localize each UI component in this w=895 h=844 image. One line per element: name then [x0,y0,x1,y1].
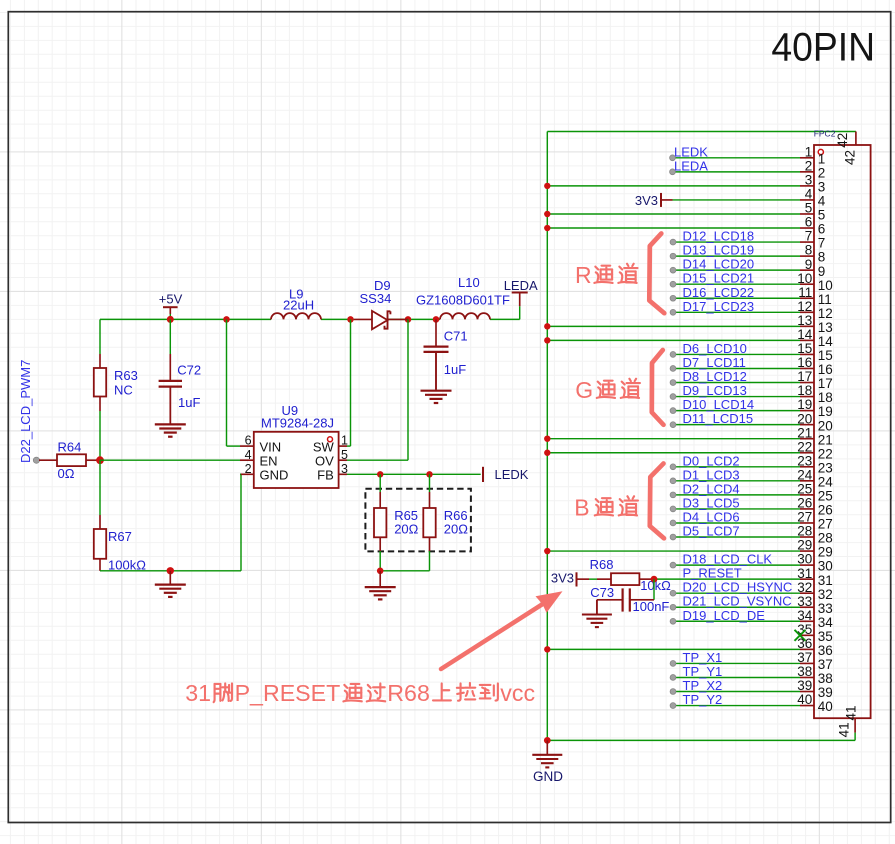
wire bottom rail to pin41 [547,739,855,741]
svg-text:0Ω: 0Ω [58,466,75,481]
svg-text:8: 8 [805,243,813,258]
wire bottom-left ground rail [100,474,241,571]
svg-text:30: 30 [818,559,833,574]
svg-text:40: 40 [818,699,833,714]
svg-text:36: 36 [818,643,833,658]
pin 30 [670,552,833,574]
svg-text:D11_LCD15: D11_LCD15 [683,411,754,426]
pin 19 [670,397,833,419]
port LEDK [483,467,529,482]
svg-text:9: 9 [805,257,813,272]
resistor R65 20ohm [374,474,419,571]
dashed option box [365,489,471,552]
U9 pin 2 GND wire [240,462,254,476]
pin 6 [544,215,825,237]
power flag +5V [159,292,183,320]
junction at +5V node [167,316,174,323]
ground below R65/R66 [365,571,396,600]
pin 36 [544,636,833,658]
svg-text:22uH: 22uH [283,297,314,312]
svg-text:C71: C71 [444,328,468,343]
svg-text:4: 4 [805,187,813,202]
svg-text:D16_LCD22: D16_LCD22 [683,285,755,300]
svg-text:D22_LCD_PWM7: D22_LCD_PWM7 [18,360,33,463]
svg-text:D3_LCD5: D3_LCD5 [683,495,740,510]
pin 4 [635,187,826,209]
svg-text:R67: R67 [108,529,132,544]
pin 14 [544,327,833,349]
svg-text:13: 13 [818,320,833,335]
pin 3 [544,172,825,194]
svg-text:P_RESET: P_RESET [683,566,742,581]
svg-text:OV: OV [315,454,334,469]
junction R64/R63/R67/EN node [96,456,104,464]
svg-text:15: 15 [818,348,833,363]
svg-text:NC: NC [114,382,133,397]
pin 25 [670,481,833,503]
svg-text:D1_LCD3: D1_LCD3 [683,467,740,482]
pin 38 [670,664,833,686]
pin 10 [670,271,833,293]
resistor R63 NC [94,354,138,411]
pin 37 [670,650,833,672]
svg-text:+5V: +5V [159,292,183,307]
svg-text:D13_LCD19: D13_LCD19 [683,243,755,258]
pin 9 [670,257,825,279]
svg-text:20Ω: 20Ω [444,522,468,537]
svg-text:1uF: 1uF [178,395,200,410]
svg-text:GZ1608D601TF: GZ1608D601TF [416,293,510,308]
pin 12 [670,299,833,321]
svg-text:LEDK: LEDK [674,144,708,159]
svg-text:7: 7 [805,229,813,244]
svg-text:31: 31 [818,573,833,588]
svg-text:D12_LCD18: D12_LCD18 [683,229,755,244]
svg-text:6: 6 [818,222,826,237]
svg-text:SS34: SS34 [360,291,392,306]
svg-text:16: 16 [818,362,833,377]
svg-text:5: 5 [818,208,826,223]
svg-text:R63: R63 [114,368,138,383]
svg-text:TP_X2: TP_X2 [683,678,723,693]
svg-text:VIN: VIN [260,439,282,454]
svg-text:D2_LCD4: D2_LCD4 [683,481,740,496]
svg-text:2: 2 [805,158,813,173]
svg-text:D5_LCD7: D5_LCD7 [683,524,740,539]
inductor L10 GZ1608D601TF [416,275,510,319]
svg-text:12: 12 [818,306,833,321]
svg-text:4: 4 [818,194,826,209]
svg-text:41: 41 [844,705,859,720]
ground flag GND [532,740,563,784]
junction R68/P_RESET/C73 [651,576,658,583]
junction R65 ground [377,568,384,575]
svg-text:9: 9 [818,264,826,279]
U9 pin 1 SW wire [339,319,351,447]
pin 26 [670,495,833,517]
pin 42 stub [855,132,857,146]
svg-text:D14_LCD20: D14_LCD20 [683,257,755,272]
pin 32 [670,580,833,602]
svg-text:D8_LCD12: D8_LCD12 [683,369,747,384]
svg-text:1: 1 [805,144,813,159]
pin 1 [670,144,826,166]
capacitor C73 100nF [590,579,669,614]
svg-text:R68: R68 [590,557,614,572]
svg-text:34: 34 [818,615,834,630]
pin 7 [670,229,825,251]
capacitor C72 [159,319,202,423]
pin 15 [670,341,833,363]
resistor R64 0ohm [33,439,100,481]
junction ground rail [167,567,174,574]
svg-text:D7_LCD11: D7_LCD11 [683,355,746,370]
svg-text:R64: R64 [58,439,82,454]
U9 pin 3 FB wire [339,462,481,476]
svg-text:LEDK: LEDK [495,467,529,482]
pin 17 [670,369,833,391]
svg-text:2: 2 [818,165,826,180]
svg-text:10: 10 [818,278,833,293]
svg-text:25: 25 [818,488,833,503]
wire top rail to pin42 [547,131,856,133]
svg-text:G: G [575,377,593,403]
svg-text:TP_X1: TP_X1 [683,650,723,665]
junction FB/R65 [377,471,383,477]
pin 35 [795,622,833,644]
U9 pin 4 EN wire [100,448,254,462]
U9 pin1 marker dot [328,437,333,442]
svg-text:20Ω: 20Ω [394,522,418,537]
wire R65-R66 ground rail [380,570,429,572]
svg-text:C72: C72 [177,363,201,378]
op-amp U9 MT9284-28J body [254,403,339,488]
svg-text:37: 37 [818,657,833,672]
svg-text:41: 41 [836,722,851,737]
pin 34 [670,608,833,630]
pin 41 stub [854,718,856,740]
pin 1 indicator [818,149,823,154]
svg-text:vcc: vcc [500,680,535,706]
pin 41 numbers [836,705,858,737]
svg-text:1: 1 [818,151,826,166]
ground below C71 [421,352,452,403]
svg-text:8: 8 [818,250,826,265]
annotation G channel [575,350,663,425]
svg-text:6: 6 [805,215,813,230]
junction C71 branch [433,316,440,323]
ground below C73 [582,600,612,627]
resistor R67 100k [94,460,146,572]
capacitor C71 [424,319,468,389]
svg-text:D9_LCD13: D9_LCD13 [683,383,747,398]
svg-text:3: 3 [805,172,813,187]
resistor R68 10k [590,557,672,593]
wire main top rail [100,318,520,320]
svg-text:35: 35 [818,629,833,644]
pin 28 [670,524,833,546]
svg-text:14: 14 [818,334,834,349]
pin 33 [670,594,833,616]
inductor L9 [271,286,321,319]
svg-text:7: 7 [818,236,826,251]
net label D22_LCD_PWM7 [18,360,33,463]
pin 27 [670,509,833,531]
svg-text:FPC2: FPC2 [814,129,836,139]
U9 pin 6 VIN wire [227,319,254,447]
junction OV branch [405,316,412,323]
pin 31 [654,566,833,588]
svg-text:28: 28 [818,531,833,546]
svg-text:17: 17 [818,376,833,391]
port LEDA [504,278,538,320]
wire left ground bus [546,132,548,741]
U9 pin 5 OV wire [339,319,408,461]
svg-text:26: 26 [818,503,833,518]
svg-text:27: 27 [818,517,833,532]
junction SW branch [347,316,354,323]
port 3V3 at R68 [551,570,597,586]
junction VIN branch [223,316,230,323]
svg-text:D4_LCD6: D4_LCD6 [683,509,740,524]
pin 2 [670,158,826,180]
pin 11 [670,285,832,307]
svg-text:TP_Y2: TP_Y2 [683,692,723,707]
svg-text:D21_LCD_VSYNC: D21_LCD_VSYNC [683,594,792,609]
svg-text:19: 19 [818,404,833,419]
svg-text:B: B [574,495,589,521]
svg-text:20: 20 [818,418,833,433]
pin 42 numbers [835,133,858,165]
wire R63 branch [99,319,101,460]
svg-text:29: 29 [818,545,833,560]
svg-text:3V3: 3V3 [635,193,658,208]
U9 pin names [260,439,335,482]
pin 16 [670,355,833,377]
svg-text:D20_LCD_HSYNC: D20_LCD_HSYNC [683,580,793,595]
annotation R channel [575,234,664,314]
ground below R67 rail [155,571,186,597]
pin 40 [670,692,833,714]
svg-text:LEDA: LEDA [674,158,708,173]
svg-text:32: 32 [818,587,833,602]
svg-text:D6_LCD10: D6_LCD10 [683,341,747,356]
svg-text:21: 21 [818,432,833,447]
svg-text:11: 11 [818,292,832,307]
pin 21 [544,425,833,447]
svg-text:GND: GND [260,468,289,483]
annotation text 31 pin P_RESET pull up [185,680,535,706]
pin 23 [670,453,833,475]
title 40PIN [771,26,875,70]
ground below C72 [155,387,186,437]
diode D9 SS34 [354,278,408,330]
connector FPC2 body [814,129,871,719]
pin 13 [544,313,833,335]
svg-text:D18_LCD_CLK: D18_LCD_CLK [683,552,773,567]
svg-text:D17_LCD23: D17_LCD23 [683,299,755,314]
svg-text:FB: FB [317,468,334,483]
svg-text:D19_LCD_DE: D19_LCD_DE [683,608,766,623]
svg-text:22: 22 [818,446,833,461]
svg-text:TP_Y1: TP_Y1 [683,664,723,679]
svg-text:GND: GND [533,769,563,784]
svg-text:R: R [575,262,592,288]
pin 24 [670,467,833,489]
svg-text:42: 42 [843,150,858,165]
svg-text:D10_LCD14: D10_LCD14 [683,397,755,412]
annotation arrow [441,591,563,669]
svg-text:38: 38 [818,671,833,686]
resistor R66 20ohm [423,474,468,571]
svg-text:P_RESET: P_RESET [235,680,341,706]
svg-text:3V3: 3V3 [551,570,574,585]
pin 29 [544,538,833,560]
svg-text:3: 3 [818,179,826,194]
svg-text:R68: R68 [387,680,430,706]
svg-text:11: 11 [798,285,812,300]
junction GND node [544,737,551,744]
svg-text:42: 42 [835,133,850,148]
svg-text:MT9284-28J: MT9284-28J [261,416,334,431]
pin 5 [544,201,825,223]
svg-text:24: 24 [818,474,834,489]
svg-text:D15_LCD21: D15_LCD21 [683,271,755,286]
svg-text:23: 23 [818,460,833,475]
svg-text:31: 31 [185,680,211,706]
pin 18 [670,383,833,405]
svg-text:EN: EN [260,454,278,469]
svg-text:5: 5 [805,201,813,216]
svg-text:D0_LCD2: D0_LCD2 [683,453,740,468]
pin 22 [544,439,833,461]
svg-text:33: 33 [818,601,833,616]
svg-text:C73: C73 [590,585,614,600]
svg-text:18: 18 [818,390,833,405]
pin 39 [670,678,833,700]
svg-text:40PIN: 40PIN [771,26,875,70]
svg-text:L10: L10 [458,275,480,290]
annotation B channel [574,464,664,539]
svg-text:1uF: 1uF [444,362,466,377]
pin 8 [670,243,825,265]
svg-text:100kΩ: 100kΩ [108,557,146,572]
pin 20 [670,411,833,433]
junction FB/R66 [426,471,432,477]
svg-text:39: 39 [818,685,833,700]
svg-text:100nF: 100nF [633,599,670,614]
svg-text:LEDA: LEDA [504,278,538,293]
